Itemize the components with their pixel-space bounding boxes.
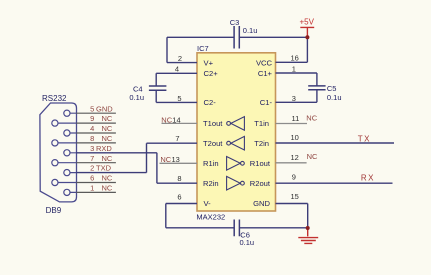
svg-text:DB9: DB9 bbox=[46, 206, 62, 215]
svg-text:C5: C5 bbox=[327, 84, 337, 93]
svg-text:C2-: C2- bbox=[204, 98, 217, 107]
svg-text:T1out: T1out bbox=[203, 119, 223, 128]
svg-text:2: 2 bbox=[90, 164, 94, 173]
svg-text:GND: GND bbox=[96, 104, 113, 113]
svg-text:RXD: RXD bbox=[96, 144, 112, 153]
svg-text:1: 1 bbox=[292, 65, 296, 74]
svg-text:0.1u: 0.1u bbox=[129, 93, 144, 102]
svg-text:7: 7 bbox=[90, 154, 94, 163]
svg-text:2: 2 bbox=[178, 54, 182, 63]
svg-text:5: 5 bbox=[90, 104, 94, 113]
svg-text:4: 4 bbox=[175, 65, 179, 74]
svg-text:MAX232: MAX232 bbox=[196, 213, 225, 222]
svg-text:15: 15 bbox=[291, 192, 299, 201]
svg-text:10: 10 bbox=[291, 133, 299, 142]
svg-text:14: 14 bbox=[172, 115, 180, 124]
svg-text:IC7: IC7 bbox=[197, 44, 209, 53]
svg-text:3: 3 bbox=[90, 144, 94, 153]
svg-text:6: 6 bbox=[177, 193, 181, 202]
svg-text:T2in: T2in bbox=[254, 139, 269, 148]
svg-text:RS232: RS232 bbox=[42, 94, 67, 103]
svg-text:VCC: VCC bbox=[256, 58, 273, 67]
svg-text:R1out: R1out bbox=[250, 159, 271, 168]
svg-text:V+: V+ bbox=[204, 58, 214, 67]
svg-text:C1-: C1- bbox=[260, 98, 273, 107]
svg-text:GND: GND bbox=[253, 199, 270, 208]
svg-text:13: 13 bbox=[172, 155, 180, 164]
svg-text:C3: C3 bbox=[230, 18, 240, 27]
svg-text:0.1u: 0.1u bbox=[240, 238, 255, 247]
svg-text:16: 16 bbox=[291, 53, 299, 62]
svg-text:0.1u: 0.1u bbox=[327, 93, 342, 102]
svg-text:V-: V- bbox=[204, 199, 212, 208]
svg-text:R2in: R2in bbox=[203, 179, 219, 188]
svg-text:RX: RX bbox=[361, 174, 375, 183]
svg-text:4: 4 bbox=[90, 124, 94, 133]
svg-text:7: 7 bbox=[175, 134, 179, 143]
svg-text:R1in: R1in bbox=[203, 159, 219, 168]
svg-text:T1in: T1in bbox=[254, 119, 269, 128]
svg-text:11: 11 bbox=[292, 114, 300, 123]
svg-text:1: 1 bbox=[90, 184, 94, 193]
svg-text:8: 8 bbox=[177, 174, 181, 183]
svg-text:TXD: TXD bbox=[96, 164, 112, 173]
svg-text:NC: NC bbox=[102, 114, 113, 123]
svg-text:R2out: R2out bbox=[250, 179, 271, 188]
svg-text:NC: NC bbox=[102, 184, 113, 193]
svg-text:TX: TX bbox=[358, 134, 371, 143]
svg-text:0.1u: 0.1u bbox=[243, 26, 258, 35]
svg-text:12: 12 bbox=[291, 153, 299, 162]
svg-text:3: 3 bbox=[292, 94, 296, 103]
svg-text:C1+: C1+ bbox=[258, 69, 273, 78]
svg-text:NC: NC bbox=[307, 152, 318, 161]
svg-text:T2out: T2out bbox=[203, 139, 223, 148]
svg-text:NC: NC bbox=[102, 134, 113, 143]
svg-text:9: 9 bbox=[90, 114, 94, 123]
svg-text:9: 9 bbox=[292, 173, 296, 182]
svg-text:8: 8 bbox=[90, 134, 94, 143]
svg-text:NC: NC bbox=[160, 155, 171, 164]
svg-text:NC: NC bbox=[102, 174, 113, 183]
svg-text:NC: NC bbox=[161, 115, 172, 124]
svg-text:5: 5 bbox=[177, 94, 181, 103]
svg-text:NC: NC bbox=[306, 113, 317, 122]
svg-text:6: 6 bbox=[90, 174, 94, 183]
svg-text:C2+: C2+ bbox=[204, 69, 219, 78]
svg-text:NC: NC bbox=[102, 124, 113, 133]
svg-text:+5V: +5V bbox=[300, 18, 315, 27]
svg-text:NC: NC bbox=[102, 154, 113, 163]
